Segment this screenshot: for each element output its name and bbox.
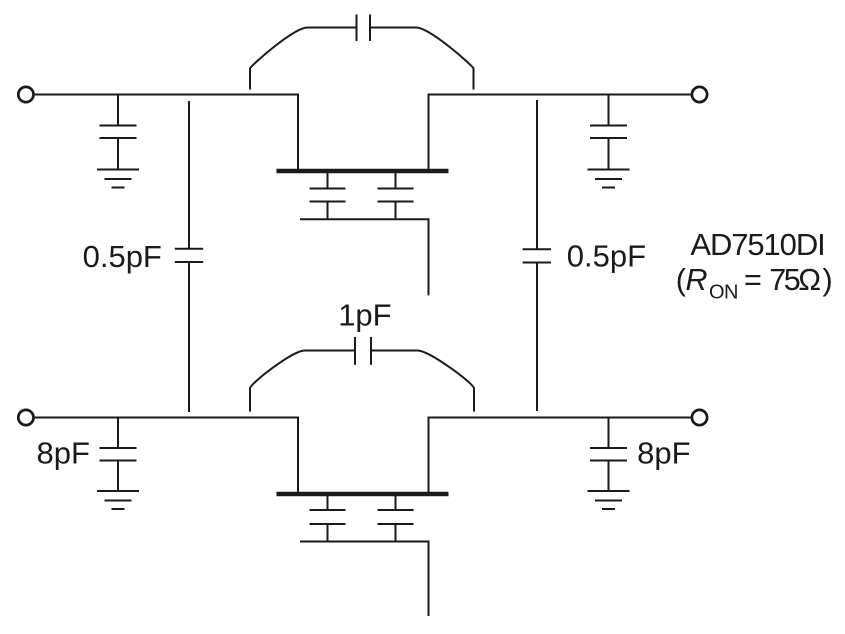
wire: U1a substrate common + stub down bbox=[300, 219, 429, 295]
svg-text:1pF: 1pF bbox=[338, 297, 391, 332]
capacitor (U1b junction cap, right) bbox=[378, 496, 414, 542]
switch U1b channel bar bbox=[277, 492, 449, 497]
wire: left arc lead of C8 bbox=[250, 351, 355, 412]
plates of C3 bbox=[356, 15, 358, 42]
ground (below C7) bbox=[588, 491, 630, 509]
ground (below C2) bbox=[588, 170, 630, 188]
capacitor C5, 0.5pF (right, between top and bottom rails) bbox=[523, 100, 551, 411]
wire: right arc lead of C3 bbox=[370, 28, 474, 90]
terminal T4 (bottom right, open circle) bbox=[692, 410, 707, 425]
wire: drain drop into switch U1b (left vertical) bbox=[297, 417, 299, 495]
wire: source drop into switch U1b (right vertical) bbox=[428, 417, 430, 495]
svg-text:(RON = 75Ω): (RON = 75Ω) bbox=[676, 263, 832, 303]
wire: top-left rail from T1 to switch drain drop bbox=[35, 94, 298, 96]
ground (below C1) bbox=[97, 170, 139, 188]
capacitor C8, 1pF (feedthrough across U1b, on arched bypass) bbox=[250, 337, 474, 412]
wire: bottom-right rail from switch to T4 bbox=[429, 417, 691, 419]
terminal T2 (top right, open circle) bbox=[692, 87, 707, 102]
ground (below C6) bbox=[97, 491, 139, 509]
wire: right arc lead of C8 bbox=[371, 351, 474, 412]
terminal T3 (bottom left, open circle) bbox=[18, 410, 33, 425]
wire: drain drop into switch U1a (left vertical) bbox=[297, 94, 299, 172]
svg-text:0.5pF: 0.5pF bbox=[567, 238, 646, 273]
wire: bottom-left rail from T3 to switch drain drop bbox=[35, 417, 298, 419]
capacitor C7, 8pF (bottom-right shunt to ground) bbox=[590, 418, 627, 490]
capacitor C4, 0.5pF (left, between top and bottom rails) bbox=[175, 101, 203, 412]
wire: left arc lead of C3 bbox=[250, 28, 357, 90]
capacitor C1 (top-left shunt to ground) bbox=[100, 95, 137, 169]
capacitor (U1a junction cap, right) bbox=[378, 173, 414, 219]
svg-text:AD7510DI: AD7510DI bbox=[690, 227, 824, 262]
capacitor C3 (feedthrough across U1a, on arched bypass) bbox=[250, 15, 474, 90]
svg-text:8pF: 8pF bbox=[637, 436, 690, 471]
capacitor (U1b junction cap, left) bbox=[310, 496, 346, 542]
wire: U1b substrate common + stub down bbox=[300, 542, 429, 617]
capacitor C6, 8pF (bottom-left shunt to ground) bbox=[100, 418, 137, 490]
terminal T1 (top left, open circle) bbox=[18, 87, 33, 102]
capacitor C2 (top-right shunt to ground) bbox=[590, 95, 627, 169]
wire: top-right rail from switch to T2 bbox=[429, 94, 691, 96]
switch U1a channel bar bbox=[277, 169, 449, 174]
svg-text:8pF: 8pF bbox=[37, 436, 90, 471]
plates of C8 bbox=[354, 337, 356, 365]
svg-text:0.5pF: 0.5pF bbox=[83, 239, 162, 274]
wire: source drop into switch U1a (right vertical) bbox=[428, 94, 430, 172]
capacitor (U1a junction cap, left) bbox=[310, 173, 346, 219]
